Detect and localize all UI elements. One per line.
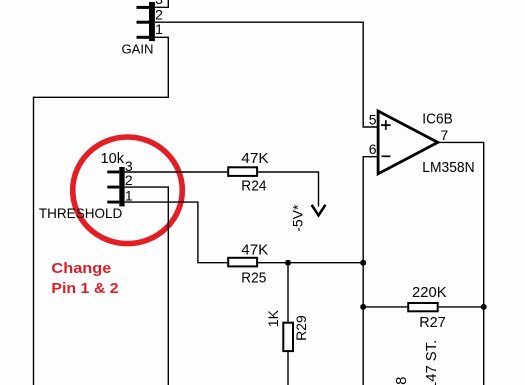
-5V* arrowhead: [312, 205, 326, 216]
wire R29 to bottom edge: [287, 351, 289, 385]
svg-text:47K: 47K: [241, 150, 268, 167]
junction feedback left: [360, 304, 366, 310]
svg-text:-5V*: -5V*: [290, 204, 306, 232]
wire op-amp output pin 7 down right side: [438, 142, 484, 385]
junction at R29 tap: [285, 260, 291, 266]
op-amp minus sign: [382, 155, 391, 157]
wire THRESHOLD pin 1 to R25: [125, 202, 228, 263]
wire R25 to inverting input net: [257, 262, 363, 264]
potentiometer THRESHOLD body bar: [119, 167, 124, 206]
wire THRESHOLD pin 3 to R24: [125, 171, 228, 173]
svg-text:10k: 10k: [101, 151, 125, 167]
wire R24 to -5V arrow: [258, 172, 318, 207]
svg-text:8: 8: [393, 377, 410, 385]
resistor R29 body: [283, 323, 293, 351]
svg-text:LM358N: LM358N: [422, 160, 474, 176]
svg-text:147 ST.: 147 ST.: [424, 340, 440, 385]
svg-text:R27: R27: [419, 315, 445, 331]
op-amp plus sign: [381, 120, 391, 130]
svg-text:Pin 1 & 2: Pin 1 & 2: [51, 280, 118, 297]
GAIN pin stub 1: [137, 36, 150, 39]
svg-text:6: 6: [369, 141, 377, 157]
svg-text:R29: R29: [293, 315, 309, 341]
GAIN pin stub 2: [137, 21, 150, 24]
svg-text:1: 1: [155, 21, 163, 37]
wire GAIN pin 3 up to top edge: [155, 0, 168, 7]
wire GAIN pin 1 down-left to bottom edge: [34, 37, 169, 385]
potentiometer GAIN body bar: [149, 2, 155, 41]
svg-text:1K: 1K: [265, 309, 281, 327]
resistor R24 body: [228, 167, 257, 176]
THRESHOLD pin stub 3: [107, 171, 119, 174]
junction at op-amp feedback node: [360, 260, 366, 266]
svg-text:220K: 220K: [412, 284, 447, 301]
junction feedback right: [481, 304, 487, 310]
svg-text:R25: R25: [241, 270, 266, 286]
svg-text:R24: R24: [241, 179, 266, 195]
svg-text:GAIN: GAIN: [122, 42, 154, 57]
THRESHOLD pin stub 2: [107, 186, 119, 189]
svg-text:1: 1: [125, 187, 133, 203]
svg-text:THRESHOLD: THRESHOLD: [39, 206, 122, 221]
svg-text:Change: Change: [51, 260, 111, 277]
wire feedback row to R27: [363, 306, 407, 308]
svg-text:5: 5: [369, 112, 377, 128]
resistor R27 body: [408, 303, 438, 311]
GAIN pin stub 3: [137, 6, 150, 9]
resistor R25 body: [228, 258, 257, 267]
svg-text:47K: 47K: [241, 242, 268, 259]
op-amp IC6B triangle: [378, 111, 438, 174]
THRESHOLD pin stub 1: [107, 201, 119, 204]
wire GAIN pin 2 to op-amp pin 5: [155, 22, 378, 127]
svg-text:2: 2: [125, 172, 133, 188]
wire R27 to output column: [439, 306, 484, 308]
svg-text:7: 7: [441, 127, 449, 143]
wire THRESHOLD pin 2 down to bottom edge: [125, 187, 169, 385]
svg-text:IC6B: IC6B: [422, 111, 452, 127]
wire R29 branch down: [287, 263, 289, 323]
wire op-amp pin 6 down to bottom edge: [363, 157, 378, 385]
red highlight circle: [73, 137, 183, 244]
